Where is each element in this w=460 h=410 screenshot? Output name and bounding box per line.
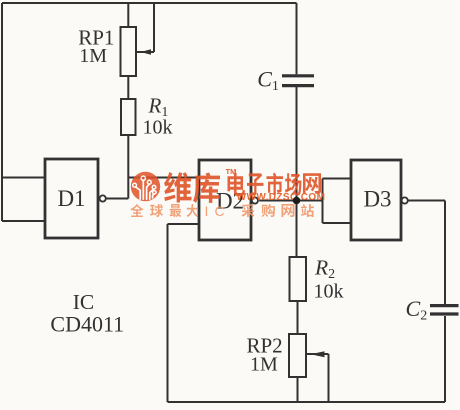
wire RP2 bottom lead [297, 377, 299, 402]
wire RP2 wiper vertical [328, 354, 330, 402]
svg-text:IC: IC [73, 290, 95, 314]
capacitor C2 [430, 306, 459, 314]
watermark title 维库 [164, 172, 220, 203]
gate D1 [45, 159, 106, 238]
wire C1 to node A to R2 [296, 87, 298, 257]
wire R2 to RP2 [297, 301, 299, 334]
svg-text:D3: D3 [363, 187, 391, 212]
label IC type [50, 290, 124, 337]
potentiometer RP2 [289, 334, 325, 377]
capacitor C1 [282, 76, 314, 86]
watermark logo icon [131, 172, 160, 201]
wire D2 input 1 [128, 177, 199, 179]
wire left rail [1, 3, 3, 221]
wire C2 to bottom rail [444, 316, 446, 402]
svg-text:10k: 10k [314, 281, 344, 303]
wire D2 input 2 [168, 223, 200, 225]
watermark slogan 全球最大IC采购网站 [130, 203, 314, 219]
wire top rail [2, 2, 297, 4]
gate D2 [199, 160, 258, 240]
wire D3 input 1 [323, 178, 352, 180]
svg-text:D1: D1 [57, 186, 85, 211]
wire D3 input 2 [323, 222, 352, 224]
resistor R2 [290, 257, 307, 301]
resistor R1 [121, 99, 136, 135]
wire D2 output to node A [259, 200, 322, 202]
svg-text:C: C [215, 203, 225, 219]
svg-text:1M: 1M [79, 45, 107, 67]
gate D3 [351, 160, 408, 240]
wire D1 input 2 [2, 220, 45, 222]
wire feedback vertical [167, 224, 169, 402]
node A junction dot [293, 197, 301, 205]
wire main vertical top to C1 [296, 3, 298, 74]
wire R1 bottom lead [127, 135, 129, 199]
potentiometer RP1 [121, 27, 152, 76]
svg-text:CD4011: CD4011 [50, 312, 124, 337]
svg-text:10k: 10k [143, 117, 173, 139]
wire RP2 wiper horizontal [306, 353, 328, 355]
wire bottom rail [168, 401, 446, 403]
wire D1 output [106, 198, 128, 200]
svg-text:WWW.DZSC.COM: WWW.DZSC.COM [237, 192, 326, 203]
wire RP1 to R1 [127, 76, 129, 99]
wire RP1 top lead [127, 3, 129, 27]
wire D1 input 1 [2, 177, 45, 179]
wire RP1 wiper vertical [153, 3, 155, 52]
watermark title 电子市场网 [228, 173, 322, 196]
svg-text:1M: 1M [250, 354, 278, 376]
wire D3 output vertical to C2 [444, 201, 446, 305]
wire D3 input tie bar [322, 179, 324, 224]
svg-text:I: I [205, 203, 209, 219]
wire D3 output [408, 200, 445, 202]
wire RP1 wiper horizontal [136, 51, 154, 53]
